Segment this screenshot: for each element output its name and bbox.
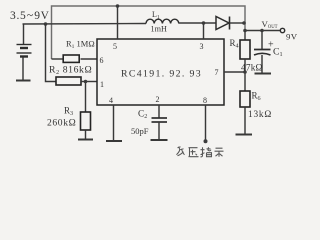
svg-text:1mH: 1mH [151, 25, 167, 34]
char 欠 [177, 147, 185, 156]
wire: junction down to R3 [85, 82, 87, 113]
svg-text:3: 3 [200, 42, 204, 51]
wire: R1 to pin6 [81, 58, 98, 60]
char 压 [189, 148, 199, 157]
wire: R4 to R6 [244, 59, 246, 91]
label: undervoltage indicator 欠压指示 (drawn strokes) [177, 147, 224, 157]
wire: R1 left lead [52, 58, 64, 60]
ground (C1) [255, 73, 272, 75]
svg-text:47kΩ: 47kΩ [241, 64, 263, 74]
resistor R3 260k [81, 112, 91, 130]
svg-text:7: 7 [215, 68, 219, 77]
svg-text:3.5~9V: 3.5~9V [10, 10, 50, 22]
resistor R4 47k [240, 40, 250, 59]
node: diode/feedback junction [242, 21, 246, 25]
wire: R6 bottom lead [244, 107, 246, 134]
wire: R3 bottom lead [85, 130, 87, 139]
terminal: LBD output dot [204, 139, 208, 143]
wire: diode cathode to output node [230, 22, 245, 24]
capacitor C1 electrolytic plates [254, 50, 271, 56]
capacitor C2 plates [152, 118, 168, 122]
terminal: Vout [280, 28, 284, 32]
resistor R2 816k [56, 77, 81, 85]
wire: pin 8 LBD output [205, 105, 207, 140]
char 指 [201, 147, 212, 157]
svg-text:R2 816kΩ: R2 816kΩ [49, 65, 92, 77]
ground (R3) [78, 139, 93, 141]
svg-text:5: 5 [113, 42, 117, 51]
svg-text:50pF: 50pF [131, 126, 149, 136]
svg-text:4: 4 [109, 96, 113, 105]
diode VD1 [216, 17, 230, 30]
wire: pin 3 from switch node [203, 23, 205, 39]
node: R2/R3 junction [84, 80, 88, 84]
wire: Vout rail [245, 30, 281, 32]
wire: C2 to ground [158, 122, 160, 140]
svg-text:8: 8 [203, 96, 207, 105]
node: pin5 tap on top rail [116, 4, 120, 8]
wire: battery+ to inductor [23, 23, 147, 26]
svg-text:9V: 9V [286, 32, 298, 42]
wire: pin 7 to divider [224, 71, 245, 73]
svg-text:260kΩ: 260kΩ [47, 118, 76, 129]
wire: battery bottom lead [22, 58, 24, 81]
node: R4 tap [243, 29, 247, 33]
resistor R6 13k [240, 91, 250, 107]
ground (R6) [236, 134, 253, 136]
wire: pin 2 to C2 [158, 105, 160, 118]
node: battery rail junction [44, 22, 48, 26]
paper background [0, 0, 298, 161]
battery B1 plates [17, 45, 32, 57]
node: C1 tap [260, 29, 264, 33]
wire: pin 4 to ground [113, 105, 115, 141]
svg-text:1: 1 [100, 80, 104, 89]
node: pin7/R4/R6 junction [243, 70, 247, 74]
svg-text:2: 2 [156, 95, 160, 104]
node: pin3 tap [202, 21, 206, 25]
inductor L1 coil [146, 19, 179, 23]
wire: Vout down to R4 [244, 31, 246, 41]
svg-text:R1 1MΩ: R1 1MΩ [66, 39, 95, 51]
wire: battery top lead [23, 24, 25, 44]
svg-text:13kΩ: 13kΩ [248, 110, 272, 120]
ground (pin4) [106, 140, 122, 142]
wire: pin 5 from top rail [117, 6, 119, 39]
svg-text:6: 6 [100, 56, 104, 65]
wire: top feedback rail from Vout to R1 [52, 6, 246, 59]
wire: vbat down to R2 [46, 24, 57, 82]
wire: R2 to pin1 [81, 81, 97, 83]
char 示 [215, 148, 224, 157]
wire: inductor to diode [179, 22, 216, 24]
wire: C1 top lead [261, 31, 263, 50]
svg-text:RC4191. 92. 93: RC4191. 92. 93 [121, 69, 202, 80]
ground (C2) [151, 139, 168, 141]
IC U1 RC4191 box [97, 39, 224, 105]
wire: C1 bottom lead [261, 55, 263, 73]
ground (battery) [16, 80, 31, 82]
resistor R1 1M [63, 55, 79, 62]
